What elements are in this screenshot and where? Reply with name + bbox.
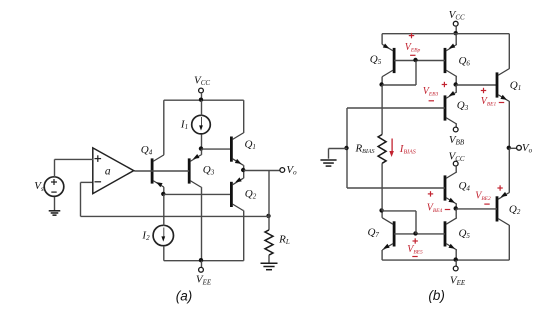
- svg-text:a: a: [105, 166, 111, 178]
- svg-text:(a): (a): [176, 289, 193, 304]
- svg-text:(b): (b): [428, 288, 445, 303]
